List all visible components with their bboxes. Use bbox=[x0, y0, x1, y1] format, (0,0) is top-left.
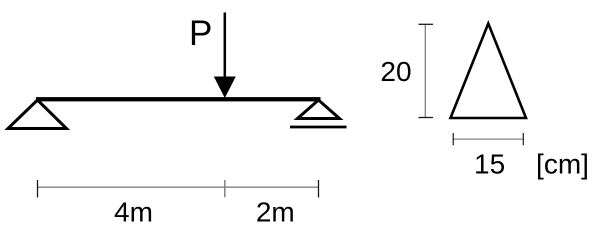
cross-section triangle bbox=[451, 24, 527, 119]
svg-text:20: 20 bbox=[380, 56, 411, 87]
roller support right triangle bbox=[298, 100, 340, 119]
svg-text:4m: 4m bbox=[114, 197, 153, 228]
svg-text:2m: 2m bbox=[256, 197, 295, 228]
svg-text:P: P bbox=[189, 14, 212, 53]
height dimension line bbox=[424, 24, 426, 117]
beam bbox=[36, 97, 321, 101]
base dimension right tick bbox=[522, 133, 524, 145]
load arrow shaft bbox=[224, 13, 227, 81]
span dimension right tick bbox=[318, 180, 320, 198]
height dimension top cap bbox=[419, 23, 434, 25]
svg-text:15: 15 bbox=[474, 148, 505, 179]
base dimension line bbox=[453, 138, 523, 140]
load arrowhead bbox=[214, 77, 236, 99]
pin support left bbox=[8, 100, 67, 129]
span dimension middle tick bbox=[224, 180, 226, 197]
roller support ground line bbox=[290, 126, 347, 129]
base dimension left tick bbox=[452, 133, 454, 145]
span dimension line bbox=[38, 186, 319, 188]
span dimension left tick bbox=[37, 180, 39, 198]
svg-text:[cm]: [cm] bbox=[536, 148, 589, 179]
height dimension bottom cap bbox=[419, 117, 434, 119]
